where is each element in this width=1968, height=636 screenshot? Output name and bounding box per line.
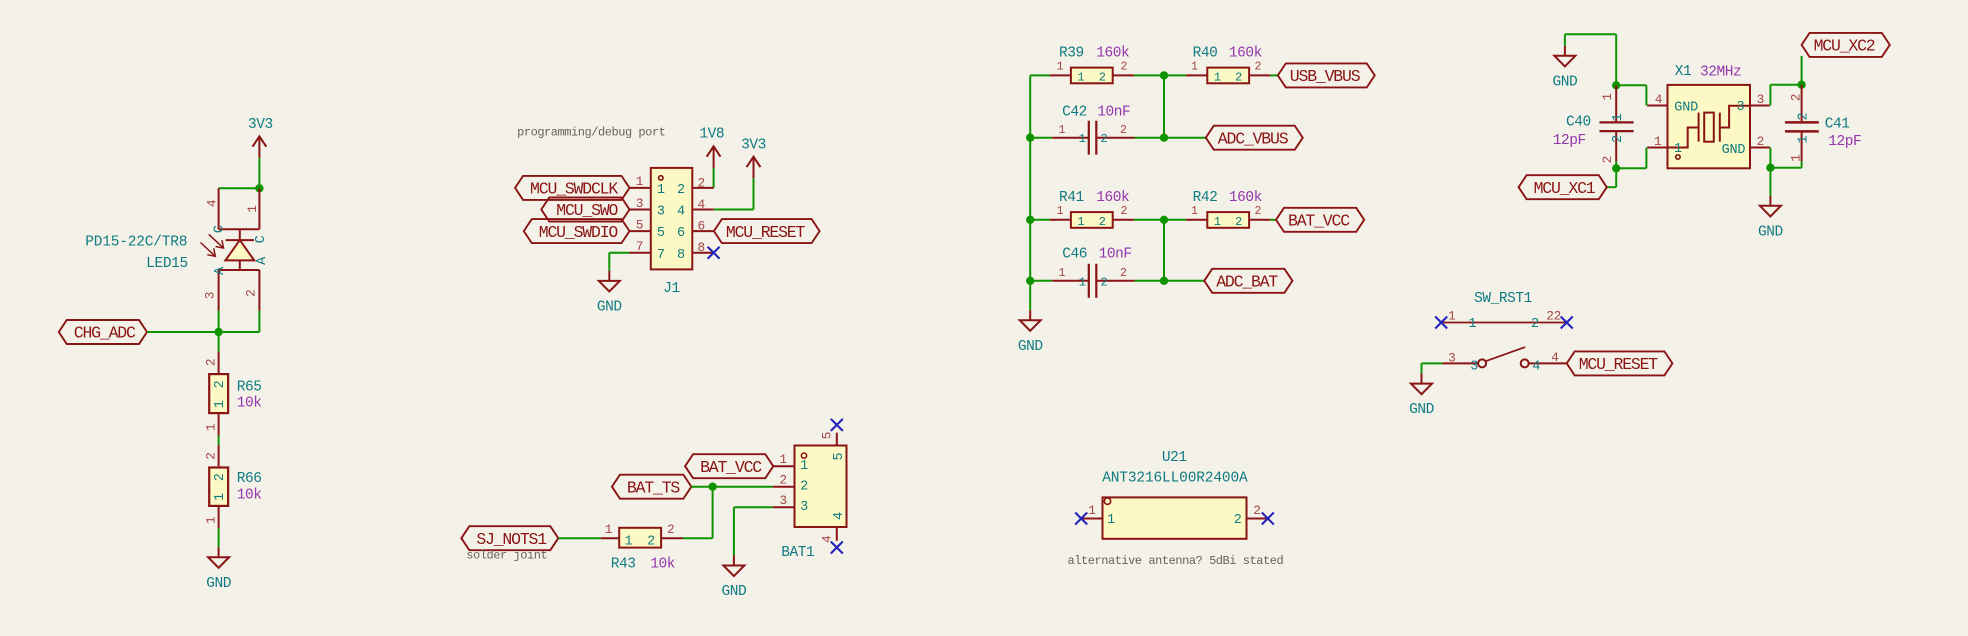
switch frame pins 1-2	[1441, 322, 1567, 324]
global label ADC_BAT	[1204, 269, 1292, 293]
svg-text:4: 4	[832, 512, 847, 520]
wire	[1615, 34, 1617, 85]
svg-text:2: 2	[1100, 275, 1107, 289]
BAT1 pin 5	[836, 433, 838, 446]
wire	[1769, 168, 1771, 196]
svg-text:2: 2	[1253, 503, 1260, 518]
svg-text:1: 1	[1077, 215, 1084, 229]
svg-text:LED15: LED15	[146, 256, 188, 272]
wire	[1134, 219, 1164, 221]
svg-text:2: 2	[1235, 215, 1242, 229]
svg-text:1: 1	[1214, 215, 1221, 229]
svg-text:C42: C42	[1062, 105, 1087, 121]
wire	[683, 537, 713, 539]
svg-text:alternative antenna? 5dBi stat: alternative antenna? 5dBi stated	[1068, 554, 1284, 568]
svg-text:C: C	[213, 225, 228, 233]
wire	[1645, 85, 1647, 105]
svg-text:10nF: 10nF	[1097, 105, 1130, 121]
global label BAT_VCC (divider)	[1276, 208, 1364, 232]
J1 pin 7	[630, 252, 651, 254]
svg-text:BAT1: BAT1	[781, 545, 814, 561]
resistor R42	[1186, 219, 1207, 221]
svg-text:2: 2	[1254, 61, 1261, 74]
svg-text:5: 5	[657, 226, 665, 241]
BAT1 pin 2	[773, 486, 795, 488]
svg-text:SW_RST1: SW_RST1	[1474, 291, 1532, 307]
svg-text:1: 1	[624, 534, 632, 549]
wire	[1164, 219, 1186, 221]
wire	[1421, 363, 1423, 373]
resistor R39	[1050, 74, 1071, 76]
no-connect BAT1 pin 4	[831, 542, 843, 554]
wire	[1607, 186, 1616, 188]
svg-text:4: 4	[677, 205, 685, 220]
svg-text:1: 1	[245, 205, 260, 213]
svg-text:1: 1	[1600, 93, 1615, 101]
svg-text:1: 1	[605, 522, 613, 537]
svg-text:MCU_RESET: MCU_RESET	[726, 223, 806, 242]
wire	[733, 507, 735, 555]
svg-text:5: 5	[820, 432, 835, 439]
svg-text:2: 2	[1254, 205, 1261, 218]
U21 pin 1	[1081, 518, 1102, 520]
node R39/R40	[1160, 71, 1168, 79]
svg-text:1: 1	[1057, 205, 1064, 218]
svg-text:2: 2	[213, 380, 228, 388]
node C40 top	[1612, 81, 1620, 89]
BAT1 pin 4	[836, 527, 838, 541]
wire	[1801, 56, 1803, 85]
svg-text:C40: C40	[1566, 115, 1591, 131]
switch contacts	[1443, 347, 1567, 367]
svg-text:4: 4	[1551, 350, 1559, 365]
wire	[219, 187, 260, 189]
svg-text:1: 1	[1059, 267, 1066, 280]
svg-text:BAT_TS: BAT_TS	[627, 478, 681, 497]
global label USB_VBUS	[1278, 63, 1375, 87]
no-connect U21 pin 1	[1075, 513, 1087, 525]
svg-text:1: 1	[1057, 61, 1064, 74]
X1 pin1 polarity circle	[1676, 155, 1680, 159]
svg-text:GND: GND	[722, 584, 747, 600]
no-connect SW pin 2	[1561, 317, 1573, 329]
svg-text:U21: U21	[1162, 450, 1187, 466]
svg-text:MCU_XC1: MCU_XC1	[1534, 179, 1596, 198]
svg-text:1: 1	[1088, 503, 1096, 518]
svg-text:3: 3	[1448, 351, 1455, 366]
svg-text:solder joint: solder joint	[466, 549, 547, 563]
svg-text:4: 4	[698, 197, 706, 212]
svg-text:programming/debug port: programming/debug port	[517, 125, 665, 139]
wire	[1769, 148, 1771, 168]
svg-text:7: 7	[657, 248, 665, 263]
svg-text:1: 1	[1611, 113, 1626, 121]
J1 pin 8	[692, 252, 713, 254]
BAT1 pin 1	[773, 465, 795, 467]
node CHG_ADC junction	[214, 328, 222, 336]
resistor R41	[1050, 219, 1071, 221]
svg-text:160k: 160k	[1096, 190, 1129, 206]
svg-text:ANT3216LL00R2400A: ANT3216LL00R2400A	[1102, 470, 1248, 486]
svg-text:10k: 10k	[237, 488, 262, 504]
svg-text:GND: GND	[597, 300, 622, 316]
resistor R40	[1186, 74, 1207, 76]
wire	[1270, 74, 1277, 76]
svg-text:3: 3	[636, 196, 643, 211]
global label CHG_ADC	[59, 320, 147, 344]
wire	[1030, 219, 1049, 221]
crystal X1 body	[1668, 85, 1751, 168]
connector J1 body	[651, 168, 693, 270]
X1 pin 3	[1750, 105, 1770, 107]
svg-text:SJ_NOTS1: SJ_NOTS1	[476, 530, 547, 549]
wire	[218, 528, 220, 547]
J1 pin 1	[630, 187, 651, 189]
svg-text:8: 8	[677, 248, 685, 263]
svg-text:ADC_VBUS: ADC_VBUS	[1218, 129, 1289, 148]
global label BAT_TS	[612, 475, 691, 499]
svg-text:1: 1	[1468, 317, 1476, 332]
node bus/C42	[1026, 134, 1034, 142]
wire	[219, 331, 260, 333]
wire	[1134, 74, 1164, 76]
svg-text:GND: GND	[1722, 143, 1746, 158]
svg-text:3: 3	[657, 205, 665, 220]
svg-text:MCU_XC2: MCU_XC2	[1814, 37, 1875, 56]
svg-text:1: 1	[213, 493, 228, 501]
svg-text:7: 7	[636, 239, 643, 254]
svg-text:2: 2	[1757, 134, 1764, 149]
svg-text:C46: C46	[1062, 246, 1087, 262]
svg-text:160k: 160k	[1229, 46, 1262, 62]
node C41 bottom	[1766, 164, 1774, 172]
capacitor C41	[1801, 85, 1803, 123]
svg-text:2: 2	[1234, 513, 1242, 528]
wire	[1565, 33, 1616, 35]
svg-text:3: 3	[1737, 100, 1745, 115]
global label ADC_VBUS	[1206, 126, 1303, 150]
wire	[258, 158, 260, 188]
svg-text:C41: C41	[1825, 117, 1850, 133]
no-connect SW pin 1	[1435, 317, 1447, 329]
wire	[753, 178, 755, 209]
J1 pin 4	[692, 209, 713, 211]
svg-text:1: 1	[1654, 134, 1662, 149]
ground (switch)	[1411, 374, 1432, 395]
svg-text:2: 2	[647, 534, 655, 549]
svg-text:2: 2	[1099, 71, 1106, 85]
svg-text:1: 1	[213, 400, 228, 408]
J1 pin 2	[692, 187, 713, 189]
wire	[1770, 84, 1801, 86]
resistor R43	[601, 537, 619, 539]
wire	[1164, 74, 1186, 76]
svg-text:10k: 10k	[237, 396, 262, 412]
svg-text:3: 3	[800, 500, 808, 515]
ground (dividers)	[1020, 310, 1041, 331]
svg-text:2: 2	[244, 289, 259, 296]
bus wire	[1029, 75, 1031, 310]
svg-text:1: 1	[800, 459, 808, 474]
node bus/C46	[1026, 277, 1034, 285]
wire	[1270, 219, 1276, 221]
svg-text:1: 1	[1107, 513, 1115, 528]
global label MCU_RESET (J1)	[714, 219, 820, 243]
svg-text:1: 1	[204, 423, 219, 431]
svg-text:2: 2	[1100, 132, 1107, 146]
svg-text:2: 2	[213, 473, 228, 481]
no-connect J1 pin 8	[708, 247, 720, 259]
svg-text:J1: J1	[663, 281, 680, 297]
svg-text:1V8: 1V8	[699, 127, 724, 143]
wire	[1030, 74, 1049, 76]
svg-text:MCU_SWO: MCU_SWO	[556, 201, 618, 220]
svg-text:1: 1	[1059, 124, 1066, 137]
global label MCU_SWDCLK	[515, 176, 629, 200]
BAT1 pin 3	[773, 506, 795, 508]
svg-text:160k: 160k	[1096, 46, 1129, 62]
power 1V8	[707, 146, 721, 168]
no-connect U21 pin 2	[1262, 513, 1274, 525]
wire	[1769, 85, 1771, 106]
svg-text:160k: 160k	[1229, 190, 1262, 206]
svg-text:GND: GND	[1409, 402, 1434, 418]
wire	[1164, 280, 1204, 282]
wire	[608, 253, 610, 271]
wire	[1135, 280, 1165, 282]
wire	[1615, 168, 1617, 187]
svg-text:GND: GND	[1018, 339, 1043, 355]
node C42/ADC_VBUS	[1160, 134, 1168, 142]
capacitor C40	[1615, 85, 1617, 122]
svg-text:2: 2	[698, 175, 705, 190]
svg-text:5: 5	[832, 453, 847, 461]
node C41 top	[1797, 81, 1805, 89]
svg-text:1: 1	[636, 174, 644, 189]
svg-text:5: 5	[636, 217, 643, 232]
node C40 bottom	[1612, 164, 1620, 172]
wire	[218, 311, 220, 332]
global label BAT_VCC (BAT1)	[685, 454, 773, 478]
no-connect BAT1 pin 5	[831, 419, 843, 431]
svg-text:1: 1	[1788, 154, 1803, 162]
wire	[1616, 167, 1646, 169]
wire	[1616, 84, 1646, 86]
J1 pin1 polarity circle	[659, 176, 663, 180]
crystal glyph	[1668, 106, 1751, 148]
svg-text:1: 1	[1191, 61, 1198, 74]
svg-text:R66: R66	[237, 471, 262, 487]
X1 pin 2	[1750, 147, 1770, 149]
svg-text:4: 4	[1655, 92, 1663, 107]
svg-text:4: 4	[205, 199, 220, 207]
svg-text:A: A	[213, 266, 228, 275]
svg-text:R43: R43	[611, 556, 636, 572]
wire	[1030, 137, 1052, 139]
J1 pin 3	[630, 209, 651, 211]
global label MCU_XC1	[1519, 175, 1607, 199]
LED15 light arrows	[201, 234, 224, 256]
capacitor C42	[1052, 137, 1089, 139]
wire	[1030, 280, 1052, 282]
svg-text:R40: R40	[1193, 46, 1218, 62]
svg-text:GND: GND	[1758, 224, 1783, 240]
svg-text:X1: X1	[1675, 64, 1692, 80]
svg-text:1: 1	[1079, 132, 1086, 146]
global label MCU_SWDIO	[524, 219, 630, 243]
svg-text:3V3: 3V3	[248, 117, 273, 133]
capacitor C46	[1052, 280, 1089, 282]
svg-text:USB_VBUS: USB_VBUS	[1290, 67, 1361, 86]
svg-text:3: 3	[779, 493, 786, 508]
svg-text:2: 2	[1600, 156, 1615, 163]
J1 pin 6	[692, 230, 713, 232]
wire	[218, 332, 220, 352]
svg-text:2: 2	[800, 479, 808, 494]
svg-text:10k: 10k	[650, 556, 675, 572]
ground (X1 right)	[1760, 196, 1781, 217]
svg-text:6: 6	[698, 219, 705, 234]
svg-text:32MHz: 32MHz	[1700, 65, 1741, 81]
svg-text:A: A	[255, 256, 270, 265]
svg-text:1: 1	[657, 183, 665, 198]
svg-text:MCU_RESET: MCU_RESET	[1579, 355, 1659, 374]
svg-text:2: 2	[204, 452, 219, 459]
svg-text:BAT_VCC: BAT_VCC	[1288, 212, 1350, 231]
svg-text:ADC_BAT: ADC_BAT	[1216, 273, 1278, 292]
wire	[1135, 137, 1165, 139]
X1 pin 4	[1647, 105, 1667, 107]
node 3V3/LED junction	[255, 184, 263, 192]
svg-text:R65: R65	[237, 380, 262, 396]
svg-text:GND: GND	[1674, 101, 1698, 116]
global label MCU_RESET (switch)	[1567, 351, 1673, 375]
svg-text:GND: GND	[206, 576, 231, 592]
svg-text:10nF: 10nF	[1099, 246, 1132, 262]
svg-text:GND: GND	[1553, 74, 1578, 90]
X1 pin 1	[1647, 147, 1667, 149]
svg-text:2: 2	[1788, 94, 1803, 101]
svg-text:1: 1	[1191, 205, 1198, 218]
wire	[1770, 167, 1801, 169]
U21 pin 2	[1247, 518, 1268, 520]
svg-text:12pF: 12pF	[1828, 134, 1861, 150]
ground (LED divider)	[208, 547, 229, 568]
global label MCU_XC2	[1802, 33, 1890, 57]
node BAT_TS	[708, 483, 716, 491]
svg-text:MCU_SWDIO: MCU_SWDIO	[539, 223, 619, 242]
svg-text:2: 2	[1531, 317, 1539, 332]
svg-text:2: 2	[204, 359, 219, 366]
svg-text:CHG_ADC: CHG_ADC	[74, 324, 136, 343]
svg-text:2: 2	[1120, 61, 1127, 74]
wire	[558, 537, 601, 539]
svg-text:22: 22	[1546, 309, 1561, 324]
svg-text:1: 1	[204, 516, 219, 524]
svg-text:1: 1	[1797, 135, 1812, 143]
node bus/R41	[1026, 216, 1034, 224]
global label SJ_NOTS1	[461, 526, 558, 550]
svg-text:1: 1	[779, 452, 787, 467]
wire	[712, 487, 714, 539]
svg-text:2: 2	[1120, 267, 1127, 280]
J1 pin 5	[630, 230, 651, 232]
wire	[691, 486, 712, 488]
svg-text:4: 4	[1532, 360, 1540, 375]
svg-text:BAT_VCC: BAT_VCC	[700, 458, 762, 477]
wire	[218, 436, 220, 446]
svg-text:1: 1	[1448, 309, 1456, 324]
svg-text:2: 2	[1120, 205, 1127, 218]
ground (J1)	[599, 271, 620, 292]
ground (X1 left)	[1554, 46, 1575, 67]
svg-text:1: 1	[1214, 71, 1221, 85]
wire	[713, 168, 715, 188]
svg-text:3: 3	[1757, 92, 1764, 107]
wire	[1163, 75, 1165, 137]
resistor R66	[218, 445, 220, 466]
svg-text:R42: R42	[1193, 190, 1218, 206]
svg-text:3: 3	[1470, 360, 1478, 375]
svg-text:2: 2	[1797, 113, 1812, 121]
wire	[147, 331, 219, 333]
svg-text:2: 2	[667, 522, 674, 537]
svg-text:MCU_SWDCLK: MCU_SWDCLK	[530, 180, 618, 199]
svg-text:2: 2	[1099, 215, 1106, 229]
power 3V3 (LED)	[253, 136, 267, 158]
wire	[1801, 161, 1803, 168]
svg-text:PD15-22C/TR8: PD15-22C/TR8	[85, 235, 187, 251]
svg-text:1: 1	[1079, 275, 1086, 289]
wire	[713, 486, 773, 488]
node R41/R42	[1160, 216, 1168, 224]
U21 pin1 polarity circle	[1104, 498, 1110, 504]
photodiode LED15 (PD15-22C/TR8)	[219, 188, 260, 310]
BAT1 pin1 polarity circle	[801, 453, 806, 458]
wire	[734, 506, 773, 508]
svg-text:3: 3	[202, 292, 217, 299]
wire	[1564, 34, 1566, 46]
resistor R65	[218, 352, 220, 373]
svg-text:2: 2	[1120, 124, 1127, 137]
svg-text:2: 2	[677, 183, 685, 198]
ground (BAT1)	[723, 556, 744, 577]
svg-text:8: 8	[698, 240, 705, 255]
wire	[609, 252, 629, 254]
svg-text:2: 2	[779, 472, 786, 487]
connector BAT1 body	[795, 446, 847, 528]
node C46/ADC_BAT	[1160, 277, 1168, 285]
svg-text:2: 2	[1235, 71, 1242, 85]
svg-text:6: 6	[677, 226, 685, 241]
wire	[1164, 137, 1206, 139]
wire	[714, 209, 754, 211]
svg-text:C: C	[254, 235, 269, 243]
global label MCU_SWO	[541, 198, 629, 222]
svg-text:12pF: 12pF	[1553, 133, 1586, 149]
antenna U21 body	[1103, 497, 1247, 538]
wire	[1422, 362, 1443, 364]
svg-text:3V3: 3V3	[741, 137, 766, 153]
wire	[258, 311, 260, 332]
svg-text:R41: R41	[1059, 190, 1084, 206]
svg-text:2: 2	[1611, 135, 1626, 143]
wire	[1163, 220, 1165, 281]
power 3V3 (J1)	[747, 157, 761, 179]
wire	[1645, 148, 1647, 169]
wire	[1615, 161, 1617, 168]
svg-text:R39: R39	[1059, 46, 1084, 62]
